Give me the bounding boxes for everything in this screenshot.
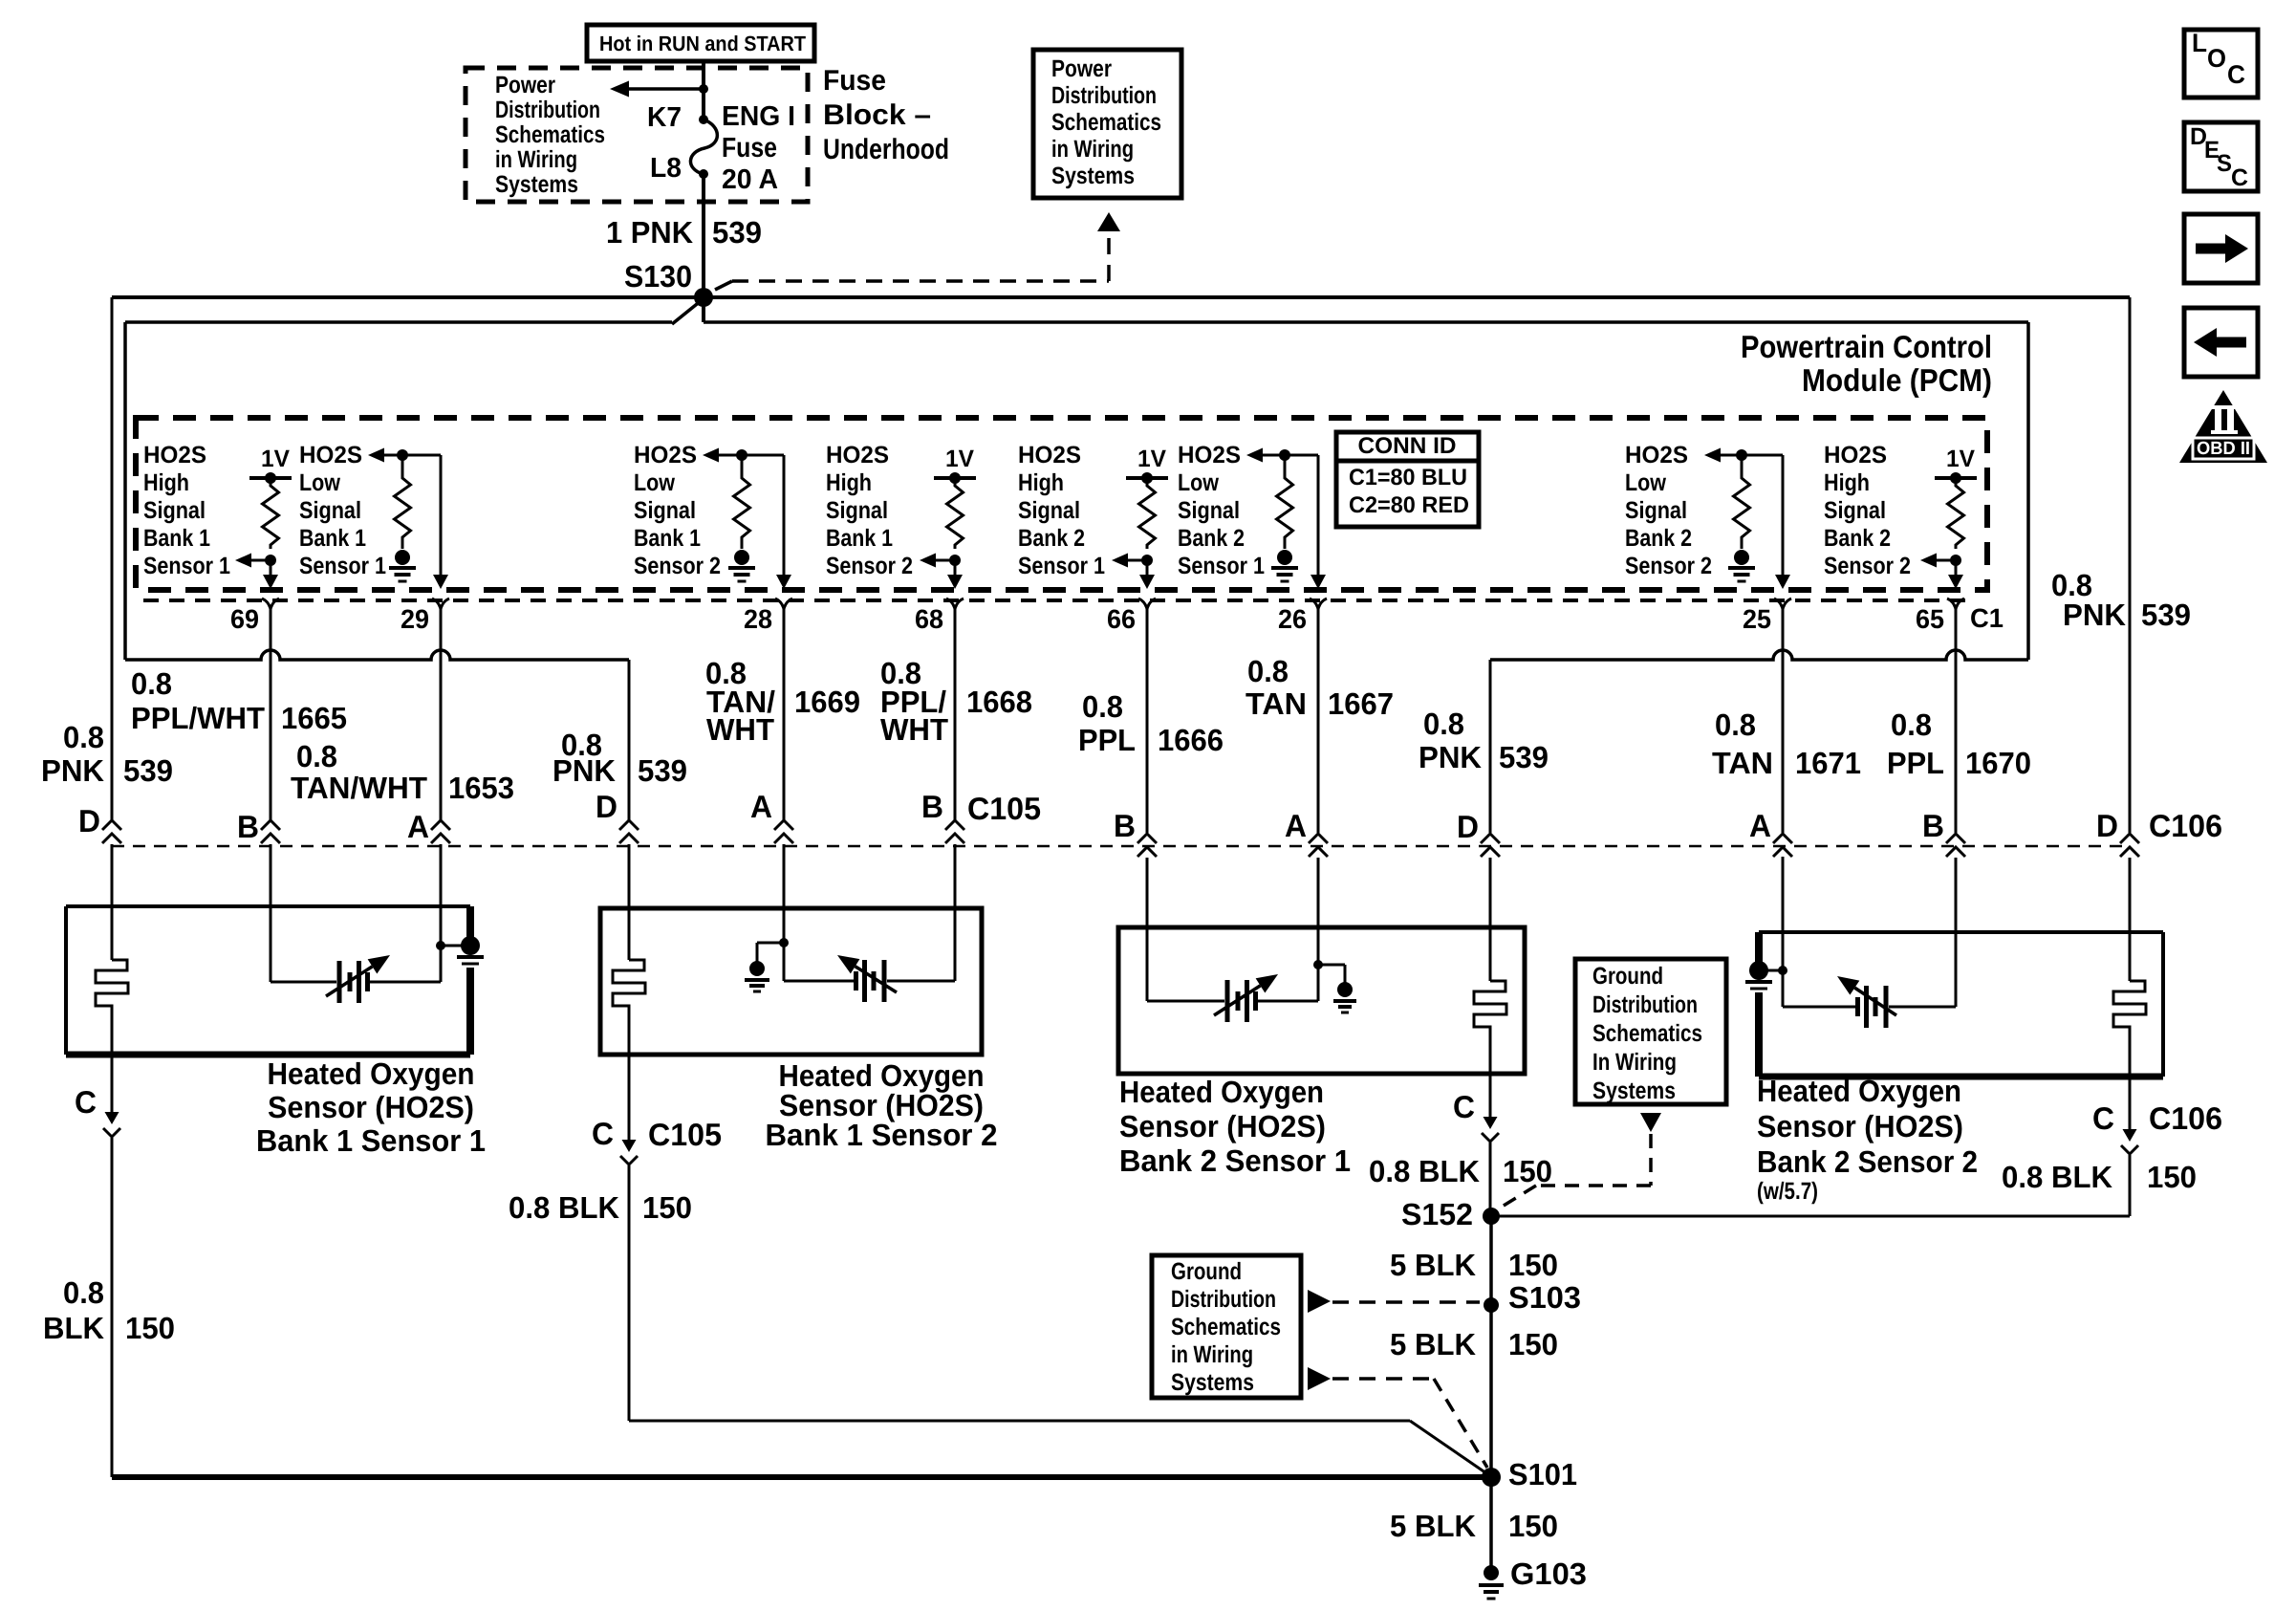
svg-text:Bank 1: Bank 1 xyxy=(634,525,701,552)
svg-text:0.8 BLK: 0.8 BLK xyxy=(1369,1154,1480,1188)
svg-text:L: L xyxy=(2192,29,2207,57)
svg-text:Sensor 1: Sensor 1 xyxy=(1018,553,1105,579)
svg-text:PPL: PPL xyxy=(1887,746,1944,780)
icon: DESC box xyxy=(2184,122,2258,191)
svg-text:Systems: Systems xyxy=(1171,1369,1254,1396)
splice S152 dot xyxy=(1483,1208,1500,1225)
svg-text:Bank 2 Sensor 2: Bank 2 Sensor 2 xyxy=(1757,1144,1978,1179)
svg-text:Signal: Signal xyxy=(299,497,361,524)
variable arrow (B2S1 element) xyxy=(1214,986,1260,1015)
svg-text:Low: Low xyxy=(634,469,675,496)
sensor case ground (B2S2) xyxy=(1755,932,1763,964)
dashed reference line to S152 xyxy=(1649,1134,1653,1186)
svg-text:150: 150 xyxy=(1508,1248,1558,1282)
inline connector on B2S1 C wire xyxy=(1484,1117,1498,1129)
svg-text:Sensor (HO2S): Sensor (HO2S) xyxy=(268,1090,474,1124)
connector pass-through chevrons at x=461 xyxy=(431,820,450,830)
dashed box: PCM internal circuitry xyxy=(136,418,1987,590)
svg-text:150: 150 xyxy=(1503,1154,1552,1188)
svg-text:Bank 2: Bank 2 xyxy=(1018,525,1085,552)
svg-text:Bank 1: Bank 1 xyxy=(299,525,366,552)
svg-text:150: 150 xyxy=(125,1311,175,1345)
heater element (B1S1) xyxy=(111,906,114,960)
icon: LOC box xyxy=(2184,30,2258,98)
svg-text:Systems: Systems xyxy=(1051,163,1135,189)
svg-text:1V: 1V xyxy=(945,446,974,472)
svg-text:1671: 1671 xyxy=(1795,746,1861,780)
icon: right arrow box xyxy=(2184,214,2258,283)
svg-text:C2=80 RED: C2=80 RED xyxy=(1349,492,1469,518)
svg-text:539: 539 xyxy=(638,753,687,788)
svg-text:Signal: Signal xyxy=(1018,497,1080,524)
svg-text:K7: K7 xyxy=(647,102,682,133)
wire: PNK 539 bus from S130 (horizontal) xyxy=(112,295,2130,299)
svg-text:Hot in RUN and START: Hot in RUN and START xyxy=(599,32,807,55)
svg-text:1667: 1667 xyxy=(1328,686,1394,721)
svg-text:A: A xyxy=(1285,808,1307,843)
svg-text:TAN: TAN xyxy=(1712,746,1773,780)
pin 28 of PCM connector xyxy=(775,599,784,609)
svg-text:PNK: PNK xyxy=(2063,598,2126,632)
svg-text:Fuse: Fuse xyxy=(823,65,886,97)
svg-text:Heated Oxygen: Heated Oxygen xyxy=(268,1056,475,1091)
svg-text:In Wiring: In Wiring xyxy=(1592,1049,1677,1076)
svg-text:HO2S: HO2S xyxy=(1018,442,1081,468)
svg-text:Bank 1 Sensor 2: Bank 1 Sensor 2 xyxy=(766,1118,998,1152)
pin 65 of PCM connector xyxy=(1947,599,1956,609)
svg-text:Schematics: Schematics xyxy=(1051,109,1161,136)
svg-text:5 BLK: 5 BLK xyxy=(1390,1248,1476,1282)
wire segment into sensor at x=999 xyxy=(954,844,957,908)
svg-text:0.8: 0.8 xyxy=(63,1275,104,1310)
svg-text:Sensor 2: Sensor 2 xyxy=(826,553,913,579)
wire to sensing element (B2S2) xyxy=(1783,1006,1856,1009)
svg-text:Bank 2 Sensor 1: Bank 2 Sensor 1 xyxy=(1119,1143,1351,1178)
svg-text:Distribution: Distribution xyxy=(495,97,600,123)
svg-text:C: C xyxy=(1453,1089,1475,1124)
svg-text:High: High xyxy=(1018,469,1064,496)
wire: B1S2 low signal internal xyxy=(783,857,786,981)
svg-text:Signal: Signal xyxy=(1178,497,1240,524)
box: Ground Distribution Schematics in Wiring Systems (left) xyxy=(1152,1255,1301,1398)
svg-text:High: High xyxy=(1824,469,1870,496)
svg-text:Heated Oxygen: Heated Oxygen xyxy=(1757,1074,1961,1108)
svg-text:in Wiring: in Wiring xyxy=(1051,136,1134,163)
svg-text:Sensor 2: Sensor 2 xyxy=(1625,553,1712,579)
splice S130 dot xyxy=(694,288,713,307)
svg-text:Signal: Signal xyxy=(1824,497,1886,524)
svg-text:Signal: Signal xyxy=(826,497,888,524)
sensing element (B1S2) xyxy=(854,971,858,991)
svg-text:C106: C106 xyxy=(2149,1100,2222,1136)
wire: B1S2 high signal internal xyxy=(954,908,957,981)
svg-text:0.8: 0.8 xyxy=(1715,708,1756,742)
wire: B2S1 high signal internal xyxy=(1146,927,1149,1001)
variable arrow (B2S2 element) xyxy=(1854,988,1896,1015)
svg-text:WHT: WHT xyxy=(706,712,774,747)
junction dot (B1S1 sensor ground) xyxy=(436,941,445,950)
svg-text:C106: C106 xyxy=(2149,808,2222,843)
icon: left arrow box xyxy=(2184,308,2258,377)
wire 5 BLK 150 S103 to S101 xyxy=(1489,1305,1493,1477)
pin 66 of PCM connector xyxy=(1138,599,1147,609)
pin 25 of PCM connector xyxy=(1774,599,1783,609)
svg-text:G103: G103 xyxy=(1510,1557,1587,1591)
svg-text:WHT: WHT xyxy=(880,712,948,747)
svg-text:(w/5.7): (w/5.7) xyxy=(1757,1178,1818,1205)
svg-text:Schematics: Schematics xyxy=(495,121,605,148)
svg-text:Ground: Ground xyxy=(1171,1258,1242,1285)
sensor ground (B1S2) xyxy=(749,961,765,976)
svg-text:HO2S: HO2S xyxy=(299,442,362,468)
svg-text:D: D xyxy=(1457,809,1479,844)
junction dot (B2S2 sensor ground) xyxy=(1778,966,1787,975)
svg-text:PPL/WHT: PPL/WHT xyxy=(131,701,265,735)
inline connector C105 on B1S2 C wire xyxy=(622,1140,637,1152)
wire: PNK run to HO2S B1S2 pin D (crosses pins 69 and 29) xyxy=(125,650,629,660)
svg-text:5 BLK: 5 BLK xyxy=(1390,1327,1476,1361)
sensor case ground (B1S1) xyxy=(466,906,474,938)
svg-text:A: A xyxy=(750,789,772,824)
svg-text:S152: S152 xyxy=(1401,1197,1473,1231)
svg-text:0.8: 0.8 xyxy=(1891,708,1932,742)
pin 29 of PCM connector xyxy=(432,599,441,609)
wire segment into sensor at x=461 xyxy=(440,844,443,906)
connector pass-through chevrons at x=999 xyxy=(945,820,964,830)
connector pass-through chevrons at x=1559 xyxy=(1481,834,1500,843)
ground G103 xyxy=(1484,1565,1499,1580)
svg-text:Power: Power xyxy=(1051,55,1112,82)
svg-text:0.8: 0.8 xyxy=(1423,707,1464,741)
svg-text:S101: S101 xyxy=(1508,1457,1577,1491)
connector pass-through chevrons at x=1379 xyxy=(1309,834,1328,843)
svg-text:Signal: Signal xyxy=(1625,497,1687,524)
svg-text:Bank 2: Bank 2 xyxy=(1178,525,1245,552)
junction dot (B1S2 sensor ground) xyxy=(779,938,789,947)
wire to sensing element (B1S2) xyxy=(784,980,855,983)
connector pass-through chevrons at x=2046 xyxy=(1946,834,1965,843)
dashed line: harness connector interface xyxy=(112,845,2130,848)
svg-text:C: C xyxy=(2092,1100,2114,1136)
svg-text:Low: Low xyxy=(299,469,340,496)
svg-text:PNK: PNK xyxy=(1419,740,1482,774)
wire: B1S2 ground run to S101 xyxy=(629,1420,1410,1423)
svg-text:Systems: Systems xyxy=(1592,1078,1676,1104)
svg-text:Distribution: Distribution xyxy=(1171,1286,1276,1313)
sensing element (B2S1) xyxy=(1225,980,1230,1022)
svg-text:HO2S: HO2S xyxy=(634,442,697,468)
svg-text:Bank 2: Bank 2 xyxy=(1824,525,1891,552)
svg-text:25: 25 xyxy=(1743,604,1771,634)
wire: B2S2 low signal internal xyxy=(1782,857,1785,1007)
svg-text:HO2S: HO2S xyxy=(1625,442,1688,468)
svg-text:Signal: Signal xyxy=(634,497,696,524)
heater element (B1S2) xyxy=(628,908,631,960)
svg-text:26: 26 xyxy=(1278,604,1307,634)
wire segment into sensor at x=117 xyxy=(111,844,114,906)
svg-text:B: B xyxy=(237,809,259,844)
wire: PNK 539 branch along PCM top (left segment with jog at S130) xyxy=(125,320,672,324)
wire segment into sensor at x=1865 xyxy=(1782,858,1785,932)
svg-text:0.8 BLK: 0.8 BLK xyxy=(509,1190,619,1225)
heater element (B2S2) xyxy=(2129,932,2132,981)
svg-text:66: 66 xyxy=(1107,604,1136,634)
wire: PNK branch left vertical xyxy=(123,322,127,660)
box: Hot in RUN and START xyxy=(587,25,814,61)
fuse terminal K7 dot xyxy=(699,115,708,124)
svg-text:5 BLK: 5 BLK xyxy=(1390,1509,1476,1543)
svg-text:C105: C105 xyxy=(967,791,1041,826)
svg-text:150: 150 xyxy=(2147,1160,2197,1194)
svg-text:150: 150 xyxy=(1508,1327,1558,1361)
svg-text:Distribution: Distribution xyxy=(1051,82,1157,109)
svg-text:High: High xyxy=(826,469,872,496)
wire segment into sensor at x=658 xyxy=(628,844,631,908)
svg-text:1665: 1665 xyxy=(281,701,347,735)
wire segment into sensor at x=283 xyxy=(270,844,272,906)
svg-text:C1=80 BLU: C1=80 BLU xyxy=(1349,465,1467,490)
svg-text:68: 68 xyxy=(915,604,943,634)
dashed reference line to S101 xyxy=(1332,1377,1434,1381)
wire: fuse output 1 PNK 539 vertical from fuse block to S130 xyxy=(702,60,705,120)
svg-text:B: B xyxy=(1922,808,1944,843)
connector pass-through chevrons at x=658 xyxy=(619,820,639,830)
svg-text:D: D xyxy=(596,789,617,824)
svg-text:1V: 1V xyxy=(1946,446,1975,472)
junction dot (B2S1 sensor ground) xyxy=(1313,960,1323,969)
wire: PNK branch right vertical xyxy=(2026,322,2030,660)
wire: B2S2 high signal internal xyxy=(1955,932,1958,1007)
fuse element ENG I Fuse 20 A xyxy=(690,120,717,174)
wire: B2S2 heater ground C C106 xyxy=(2129,1077,2132,1131)
box: Heated Oxygen Sensor (HO2S) Bank 2 Sensor 2 xyxy=(1759,930,2163,934)
wire segment into sensor at x=1379 xyxy=(1317,858,1320,927)
svg-text:B: B xyxy=(1114,808,1136,843)
svg-text:Distribution: Distribution xyxy=(1592,991,1698,1018)
svg-text:28: 28 xyxy=(744,604,772,634)
dashed reference line S130 to power distribution box xyxy=(715,281,732,290)
svg-text:B: B xyxy=(921,789,943,824)
connector pass-through chevrons at x=283 xyxy=(261,820,280,830)
wire: B1S2 heater ground C C105 xyxy=(628,1055,631,1140)
svg-text:0.8: 0.8 xyxy=(1247,654,1289,688)
svg-text:0.8 BLK: 0.8 BLK xyxy=(2002,1160,2112,1194)
svg-text:O: O xyxy=(2207,44,2226,73)
svg-text:D: D xyxy=(2096,808,2118,843)
connector pass-through chevrons at x=2228 xyxy=(2120,834,2139,843)
svg-text:29: 29 xyxy=(401,604,429,634)
box: Ground Distribution Schematics In Wiring Systems (right) xyxy=(1575,959,1726,1104)
svg-text:Powertrain Control: Powertrain Control xyxy=(1741,329,1992,364)
wire: PNK 539 drop to HO2S B2S2 pin D (right edge) xyxy=(2129,297,2132,833)
box: CONN ID xyxy=(1336,432,1479,527)
svg-text:150: 150 xyxy=(642,1190,692,1225)
svg-text:Sensor 1: Sensor 1 xyxy=(1178,553,1265,579)
svg-text:Sensor 2: Sensor 2 xyxy=(634,553,721,579)
svg-text:539: 539 xyxy=(123,753,173,788)
svg-text:L8: L8 xyxy=(650,153,682,184)
wire segment into sensor at x=2228 xyxy=(2129,858,2132,932)
svg-text:65: 65 xyxy=(1916,604,1944,634)
wire segment into sensor at x=1559 xyxy=(1489,858,1492,927)
svg-text:539: 539 xyxy=(2141,598,2191,632)
svg-text:150: 150 xyxy=(1508,1509,1558,1543)
wire 5 BLK 150 S152 to S103 xyxy=(1489,1216,1493,1305)
arrowhead from ground distribution box (down) xyxy=(1640,1113,1661,1132)
svg-text:Underhood: Underhood xyxy=(823,134,949,165)
wire: B2S1 low signal internal xyxy=(1317,927,1320,1001)
wire: PNK 539 drop to HO2S B1S1 pin D (left edge) xyxy=(111,297,114,821)
svg-text:C1: C1 xyxy=(1970,603,2004,633)
svg-text:C: C xyxy=(75,1084,97,1120)
svg-text:Schematics: Schematics xyxy=(1171,1314,1281,1340)
dashed box: Fuse Block - Underhood xyxy=(466,68,808,202)
pin 69 of PCM connector xyxy=(262,599,271,609)
connector pass-through chevrons at x=1865 xyxy=(1773,834,1792,843)
svg-text:Low: Low xyxy=(1178,469,1219,496)
svg-text:Heated Oxygen: Heated Oxygen xyxy=(1119,1075,1324,1109)
svg-text:PPL: PPL xyxy=(1078,723,1136,757)
wire: B1S1 high signal internal xyxy=(270,857,272,982)
box: Heated Oxygen Sensor (HO2S) Bank 2 Sensor 1 xyxy=(1118,927,1525,1074)
wire 5 BLK 150 S101 to G103 xyxy=(1489,1477,1493,1573)
svg-text:HO2S: HO2S xyxy=(826,442,889,468)
wire: B2S2 ground run to S152 xyxy=(1491,1215,2130,1218)
svg-text:S: S xyxy=(2217,150,2232,177)
svg-text:0.8: 0.8 xyxy=(1082,689,1123,724)
arrow: branch to power distribution schematics xyxy=(625,87,704,91)
svg-text:PNK: PNK xyxy=(41,753,104,788)
svg-text:Signal: Signal xyxy=(143,497,206,524)
variable arrow (B1S2 element) xyxy=(856,967,897,992)
dashed line: PCM connector face xyxy=(143,599,1971,602)
svg-text:20 A: 20 A xyxy=(722,164,778,195)
wire: B1S1 ground run to S101 xyxy=(112,1474,1491,1480)
svg-text:TAN/WHT: TAN/WHT xyxy=(291,771,427,805)
icon: OBD II triangle xyxy=(2179,390,2267,463)
svg-text:1653: 1653 xyxy=(448,771,514,805)
junction dot on fuse feed xyxy=(699,84,708,94)
svg-text:Sensor 2: Sensor 2 xyxy=(1824,553,1911,579)
svg-text:S130: S130 xyxy=(624,259,692,294)
pin 68 of PCM connector xyxy=(946,599,955,609)
wire: B2S1 heater ground C xyxy=(1489,1074,1492,1119)
svg-text:0.8: 0.8 xyxy=(63,720,104,754)
svg-text:C: C xyxy=(2227,60,2245,89)
svg-text:Block –: Block – xyxy=(823,99,931,131)
svg-text:1668: 1668 xyxy=(966,685,1032,719)
arrowhead to power distribution box xyxy=(1097,212,1120,231)
svg-text:69: 69 xyxy=(230,604,259,634)
svg-text:C105: C105 xyxy=(648,1117,722,1152)
svg-text:S103: S103 xyxy=(1508,1280,1581,1315)
svg-text:Power: Power xyxy=(495,72,555,98)
svg-text:Bank 1 Sensor 1: Bank 1 Sensor 1 xyxy=(256,1123,486,1158)
sensing element (B2S2) xyxy=(1855,997,1860,1016)
heater element (B2S1) xyxy=(1489,927,1492,981)
svg-text:C: C xyxy=(592,1116,614,1151)
wire: B1S1 low signal internal xyxy=(440,857,443,982)
svg-text:539: 539 xyxy=(1499,740,1549,774)
splice S101 dot xyxy=(1482,1468,1501,1487)
svg-text:in Wiring: in Wiring xyxy=(495,146,577,173)
svg-text:1 PNK: 1 PNK xyxy=(606,215,693,250)
svg-text:Sensor 1: Sensor 1 xyxy=(143,553,230,579)
svg-text:A: A xyxy=(1749,808,1771,843)
sensing element (B1S1) xyxy=(337,961,342,1003)
arrowhead to S101 reference xyxy=(1308,1367,1331,1390)
svg-text:HO2S: HO2S xyxy=(1178,442,1241,468)
svg-text:HO2S: HO2S xyxy=(1824,442,1887,468)
inline connector on B1S1 C wire xyxy=(105,1112,119,1124)
wire segment into sensor at x=1200 xyxy=(1146,858,1149,927)
svg-text:Low: Low xyxy=(1625,469,1666,496)
arrowhead to S103 reference xyxy=(1308,1290,1331,1313)
svg-text:OBD II: OBD II xyxy=(2197,439,2250,459)
svg-text:Module (PCM): Module (PCM) xyxy=(1802,362,1992,398)
wire: B1S1 heater ground C xyxy=(111,1055,114,1114)
svg-text:Bank 1: Bank 1 xyxy=(826,525,893,552)
svg-text:PNK: PNK xyxy=(552,753,616,788)
svg-text:C: C xyxy=(2231,164,2248,191)
connector pass-through chevrons at x=1200 xyxy=(1137,834,1157,843)
svg-text:D: D xyxy=(78,803,100,838)
svg-text:Sensor (HO2S): Sensor (HO2S) xyxy=(1757,1109,1963,1143)
svg-text:High: High xyxy=(143,469,189,496)
svg-text:1V: 1V xyxy=(1137,446,1166,472)
svg-text:ENG I: ENG I xyxy=(722,101,795,132)
svg-text:1670: 1670 xyxy=(1965,746,2031,780)
svg-text:CONN ID: CONN ID xyxy=(1358,433,1457,459)
fuse terminal L8 dot xyxy=(699,169,708,179)
svg-text:Fuse: Fuse xyxy=(722,133,777,163)
svg-text:Schematics: Schematics xyxy=(1592,1020,1702,1047)
wire: PNK 539 branch along PCM top (right segment) xyxy=(704,320,2028,324)
svg-text:Bank 1: Bank 1 xyxy=(143,525,210,552)
pin 26 of PCM connector xyxy=(1310,599,1318,609)
svg-text:Bank 2: Bank 2 xyxy=(1625,525,1692,552)
svg-text:HO2S: HO2S xyxy=(143,442,206,468)
svg-text:Sensor 1: Sensor 1 xyxy=(299,553,386,579)
variable arrow (B1S1 element) xyxy=(326,967,372,996)
wire: PNK run to HO2S B2S1 pin D (crosses pins 25 and 65) xyxy=(1490,650,2028,660)
svg-text:1669: 1669 xyxy=(794,685,860,719)
svg-text:1V: 1V xyxy=(261,446,290,472)
wire segment into sensor at x=820 xyxy=(783,844,786,908)
sensor ground (B2S1) xyxy=(1337,982,1353,997)
box: Power Distribution Schematics in Wiring Systems (reference, top right) xyxy=(1033,50,1181,198)
svg-text:A: A xyxy=(407,809,429,844)
splice S103 dot xyxy=(1484,1297,1499,1313)
inline connector C106 on B2S2 C wire xyxy=(2123,1129,2137,1142)
wire segment into sensor at x=2046 xyxy=(1955,858,1958,932)
connector pass-through chevrons at x=820 xyxy=(774,820,793,830)
svg-text:Ground: Ground xyxy=(1592,963,1663,990)
svg-text:Systems: Systems xyxy=(495,171,578,198)
box: Heated Oxygen Sensor (HO2S) Bank 1 Sensor 1 xyxy=(66,904,470,908)
svg-text:in Wiring: in Wiring xyxy=(1171,1341,1253,1368)
svg-text:539: 539 xyxy=(712,215,762,250)
svg-text:BLK: BLK xyxy=(43,1311,104,1345)
svg-text:1666: 1666 xyxy=(1158,723,1224,757)
svg-text:Sensor (HO2S): Sensor (HO2S) xyxy=(1119,1109,1326,1143)
connector pass-through chevrons at x=117 xyxy=(102,820,121,830)
svg-text:TAN: TAN xyxy=(1245,686,1307,721)
dashed reference line to S103 xyxy=(1332,1300,1480,1304)
svg-text:0.8: 0.8 xyxy=(131,666,172,701)
svg-text:0.8: 0.8 xyxy=(296,739,337,773)
box: Heated Oxygen Sensor (HO2S) Bank 1 Sensor 2 xyxy=(600,908,982,1055)
